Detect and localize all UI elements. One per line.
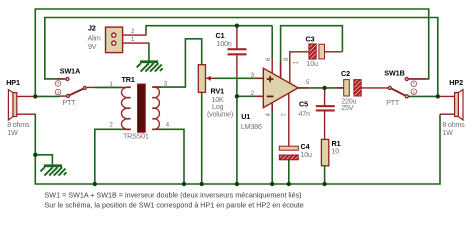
svg-text:PTT: PTT <box>63 98 77 107</box>
junction node at HP1 top <box>33 94 37 98</box>
svg-text:HP2: HP2 <box>449 78 463 87</box>
C2 plates <box>344 80 350 96</box>
SW1B toggle markers <box>411 81 417 87</box>
wire: SW1A upper throw stub <box>58 78 66 80</box>
wire: inner loop SW1A upper throw to HP2 top <box>45 18 438 97</box>
op-amp U1 LM386 <box>241 57 310 131</box>
SW1A contacts <box>66 78 69 81</box>
svg-text:C3: C3 <box>306 34 315 43</box>
svg-text:4: 4 <box>166 123 170 129</box>
connector J2 <box>88 23 136 52</box>
svg-text:100n: 100n <box>217 39 232 48</box>
svg-text:8: 8 <box>284 57 290 61</box>
R1 body <box>321 139 328 165</box>
wire: SW1A right throw to TR1 pin 1 <box>87 86 131 88</box>
svg-text:1: 1 <box>131 37 135 43</box>
speaker HP2 <box>442 78 465 137</box>
TR1 secondary winding <box>152 87 159 130</box>
junction node rail TR1 pin2 <box>93 182 97 186</box>
wire: SW1B upper throw to outer loop <box>409 78 427 80</box>
wire: HP1 top pin to junction <box>17 95 36 97</box>
svg-text:10u: 10u <box>301 150 312 159</box>
C4 plates <box>279 146 298 150</box>
svg-text:10: 10 <box>332 146 340 155</box>
svg-text:47n: 47n <box>299 109 310 118</box>
wire: HP2 bottom pin <box>440 113 455 115</box>
svg-text:U1: U1 <box>241 112 250 121</box>
wire: U1 pin 4 to ground rail <box>271 103 273 184</box>
wire: J2 pin 1 stub <box>123 42 149 44</box>
capacitor C2 (polarized) <box>341 69 361 112</box>
svg-text:SW1 = SW1A + SW1B = inverseur: SW1 = SW1A + SW1B = inverseur double (de… <box>45 190 302 199</box>
SW1B contacts <box>405 78 408 81</box>
svg-text:25V: 25V <box>341 103 353 112</box>
wire: C2 right plate to SW1B pole <box>361 87 388 89</box>
wire: HP2 top pin <box>438 95 455 97</box>
svg-text:2: 2 <box>110 123 114 129</box>
wire: RV1 wiper to U1 pin 3 <box>214 77 263 79</box>
ground: near HP1 <box>41 164 67 175</box>
svg-text:6: 6 <box>266 57 272 61</box>
capacitor C4 (polarized) <box>279 142 312 160</box>
speaker HP1 <box>6 78 30 137</box>
svg-text:Sur le schéma, la position de: Sur le schéma, la position de SW1 corres… <box>45 200 304 209</box>
svg-text:PTT: PTT <box>386 98 400 107</box>
wire: +9V rail from J2 pin 2 to U1 pin 6 <box>146 26 272 35</box>
transformer TR1 <box>110 75 170 141</box>
switch SW1B <box>384 68 416 107</box>
RV1 body <box>198 65 205 93</box>
J2 pin contacts <box>112 33 116 37</box>
svg-text:9V: 9V <box>88 42 97 51</box>
svg-text:SW1B: SW1B <box>384 68 404 77</box>
svg-text:5: 5 <box>306 80 310 86</box>
SW1A toggle markers <box>55 81 61 87</box>
C5 plates <box>316 105 335 107</box>
wire: U1 pin 8 to C3 right plate bridge <box>281 26 343 79</box>
svg-text:7: 7 <box>282 113 288 117</box>
svg-text:J2: J2 <box>88 23 96 32</box>
svg-text:(volume): (volume) <box>207 110 233 119</box>
wire: outer loop HP1 top to SW1B upper throw <box>35 9 428 96</box>
capacitor C5 <box>299 99 335 118</box>
junction node at HP2 top <box>436 94 440 98</box>
junction node rail C1/pin2 <box>235 182 239 186</box>
wire: U1 pin 6 supply drop <box>271 26 273 74</box>
connector J2 body <box>106 27 123 52</box>
junction node at HP1 bottom / ground branch <box>33 153 37 157</box>
junction node at +9V rail / C1 <box>235 24 239 28</box>
svg-text:1: 1 <box>293 61 299 65</box>
svg-text:4: 4 <box>266 113 272 117</box>
C3 plates <box>309 44 316 59</box>
wire: J2 pin 2 stub <box>123 34 147 36</box>
wire: Zobel C5-R1 chain <box>324 88 326 105</box>
svg-text:1W: 1W <box>7 128 18 137</box>
junction node rail TR1 pin4 <box>182 182 186 186</box>
wire: HP1 bottom down to ground rail <box>35 114 440 185</box>
TR1 primary winding <box>121 87 130 130</box>
wire: U1 pin 1 to C3 left plate <box>290 52 310 84</box>
speaker HP1 body <box>13 93 17 117</box>
capacitor C3 (polarized) <box>306 34 325 68</box>
speaker HP2 cone <box>458 90 463 120</box>
wire: RV1 bottom to ground rail <box>201 92 203 184</box>
capacitor C1 <box>216 31 247 55</box>
junction node rail R1 <box>322 182 326 186</box>
wire: U1 pin 7 to C4 and ground rail <box>288 93 290 146</box>
wire: C1 / ground vertical <box>236 26 238 49</box>
svg-text:HP1: HP1 <box>6 78 20 87</box>
RV1 wiper arrow <box>207 77 215 79</box>
speaker HP1 cone <box>8 90 13 120</box>
U1 minus input mark <box>267 95 274 97</box>
wire: U1 pin 2 from ground vertical <box>237 95 263 97</box>
svg-text:TRSS01: TRSS01 <box>123 132 149 141</box>
wire: ground branch near HP1 <box>35 155 52 165</box>
junction node at U1 pin 2 / ground vertical <box>235 94 239 98</box>
switch SW1A <box>55 67 86 108</box>
resistor R1 <box>321 139 340 166</box>
svg-text:SW1A: SW1A <box>60 67 80 76</box>
wire: SW1B lower throw to HP2 top junction <box>409 95 438 97</box>
wire: J2 pin 1 to ground <box>148 43 150 61</box>
SW1B lever <box>390 88 406 96</box>
svg-text:C2: C2 <box>341 69 350 78</box>
wire: HP1 bottom pin <box>17 113 36 115</box>
U1 triangle body <box>263 68 298 108</box>
C1 plates <box>228 48 247 50</box>
svg-text:2: 2 <box>131 29 135 35</box>
junction node rail C4 <box>287 182 291 186</box>
wire: TR1 pin 3 up and over to RV1 top <box>152 39 201 87</box>
svg-text:LM386: LM386 <box>241 122 262 131</box>
wire: TR1 pin 4 to ground rail <box>152 129 184 184</box>
junction node at output / C5 <box>322 86 326 90</box>
potentiometer RV1 <box>198 65 233 119</box>
TR1 core <box>138 84 146 132</box>
junction node rail U1 pin4 <box>270 182 274 186</box>
wire: TR1 pin 2 to ground rail <box>95 129 131 184</box>
speaker HP2 body <box>455 93 459 117</box>
wire: U1 pin 5 output to C2 <box>298 87 344 89</box>
wire: junction to SW1A pole <box>35 95 60 97</box>
svg-text:10u: 10u <box>307 59 318 68</box>
U1 plus input mark <box>267 76 274 82</box>
svg-text:TR1: TR1 <box>122 75 135 84</box>
SW1A lever <box>68 88 85 96</box>
junction node rail RV1 <box>200 182 204 186</box>
ground: under J2 pin 1 <box>137 60 163 71</box>
svg-text:1W: 1W <box>442 128 453 137</box>
svg-text:C5: C5 <box>299 99 308 108</box>
